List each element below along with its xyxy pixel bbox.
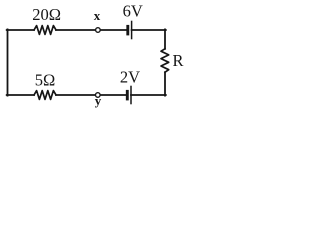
svg-text:x: x xyxy=(94,8,101,23)
resistor R2 zigzag 5ohm xyxy=(34,91,56,100)
wire node x to battery B1 xyxy=(100,29,126,31)
wire bottom-left segment xyxy=(7,94,34,96)
battery B2 long thin plate (positive) xyxy=(130,86,132,105)
node y terminal circle xyxy=(96,93,101,98)
battery B2 short thick plate (negative) xyxy=(126,90,129,101)
wire right vertical lower segment xyxy=(164,72,166,95)
wire battery B1 to top-right corner xyxy=(132,29,166,31)
wire top-middle segment (resistor to node x) xyxy=(56,29,96,31)
wire right vertical upper segment xyxy=(164,29,166,48)
svg-text:y: y xyxy=(95,93,102,108)
svg-text:20Ω: 20Ω xyxy=(32,5,61,24)
resistor R zigzag xyxy=(161,49,169,72)
battery B1 long thin plate (positive) xyxy=(131,21,133,40)
battery B1 short thick plate (negative) xyxy=(126,25,129,36)
wire left vertical xyxy=(7,29,9,95)
resistor R1 zigzag 20ohm xyxy=(34,26,56,35)
svg-text:5Ω: 5Ω xyxy=(35,70,56,89)
wire bottom-middle segment (resistor to node y) xyxy=(56,94,96,96)
svg-text:R: R xyxy=(172,51,183,70)
wire battery B2 to bottom-right corner xyxy=(131,94,166,96)
svg-text:2V: 2V xyxy=(120,67,140,86)
svg-text:6V: 6V xyxy=(123,2,143,21)
wire node y to battery B2 xyxy=(100,94,126,96)
node x terminal circle xyxy=(96,28,101,33)
wire top-left segment xyxy=(7,29,34,31)
